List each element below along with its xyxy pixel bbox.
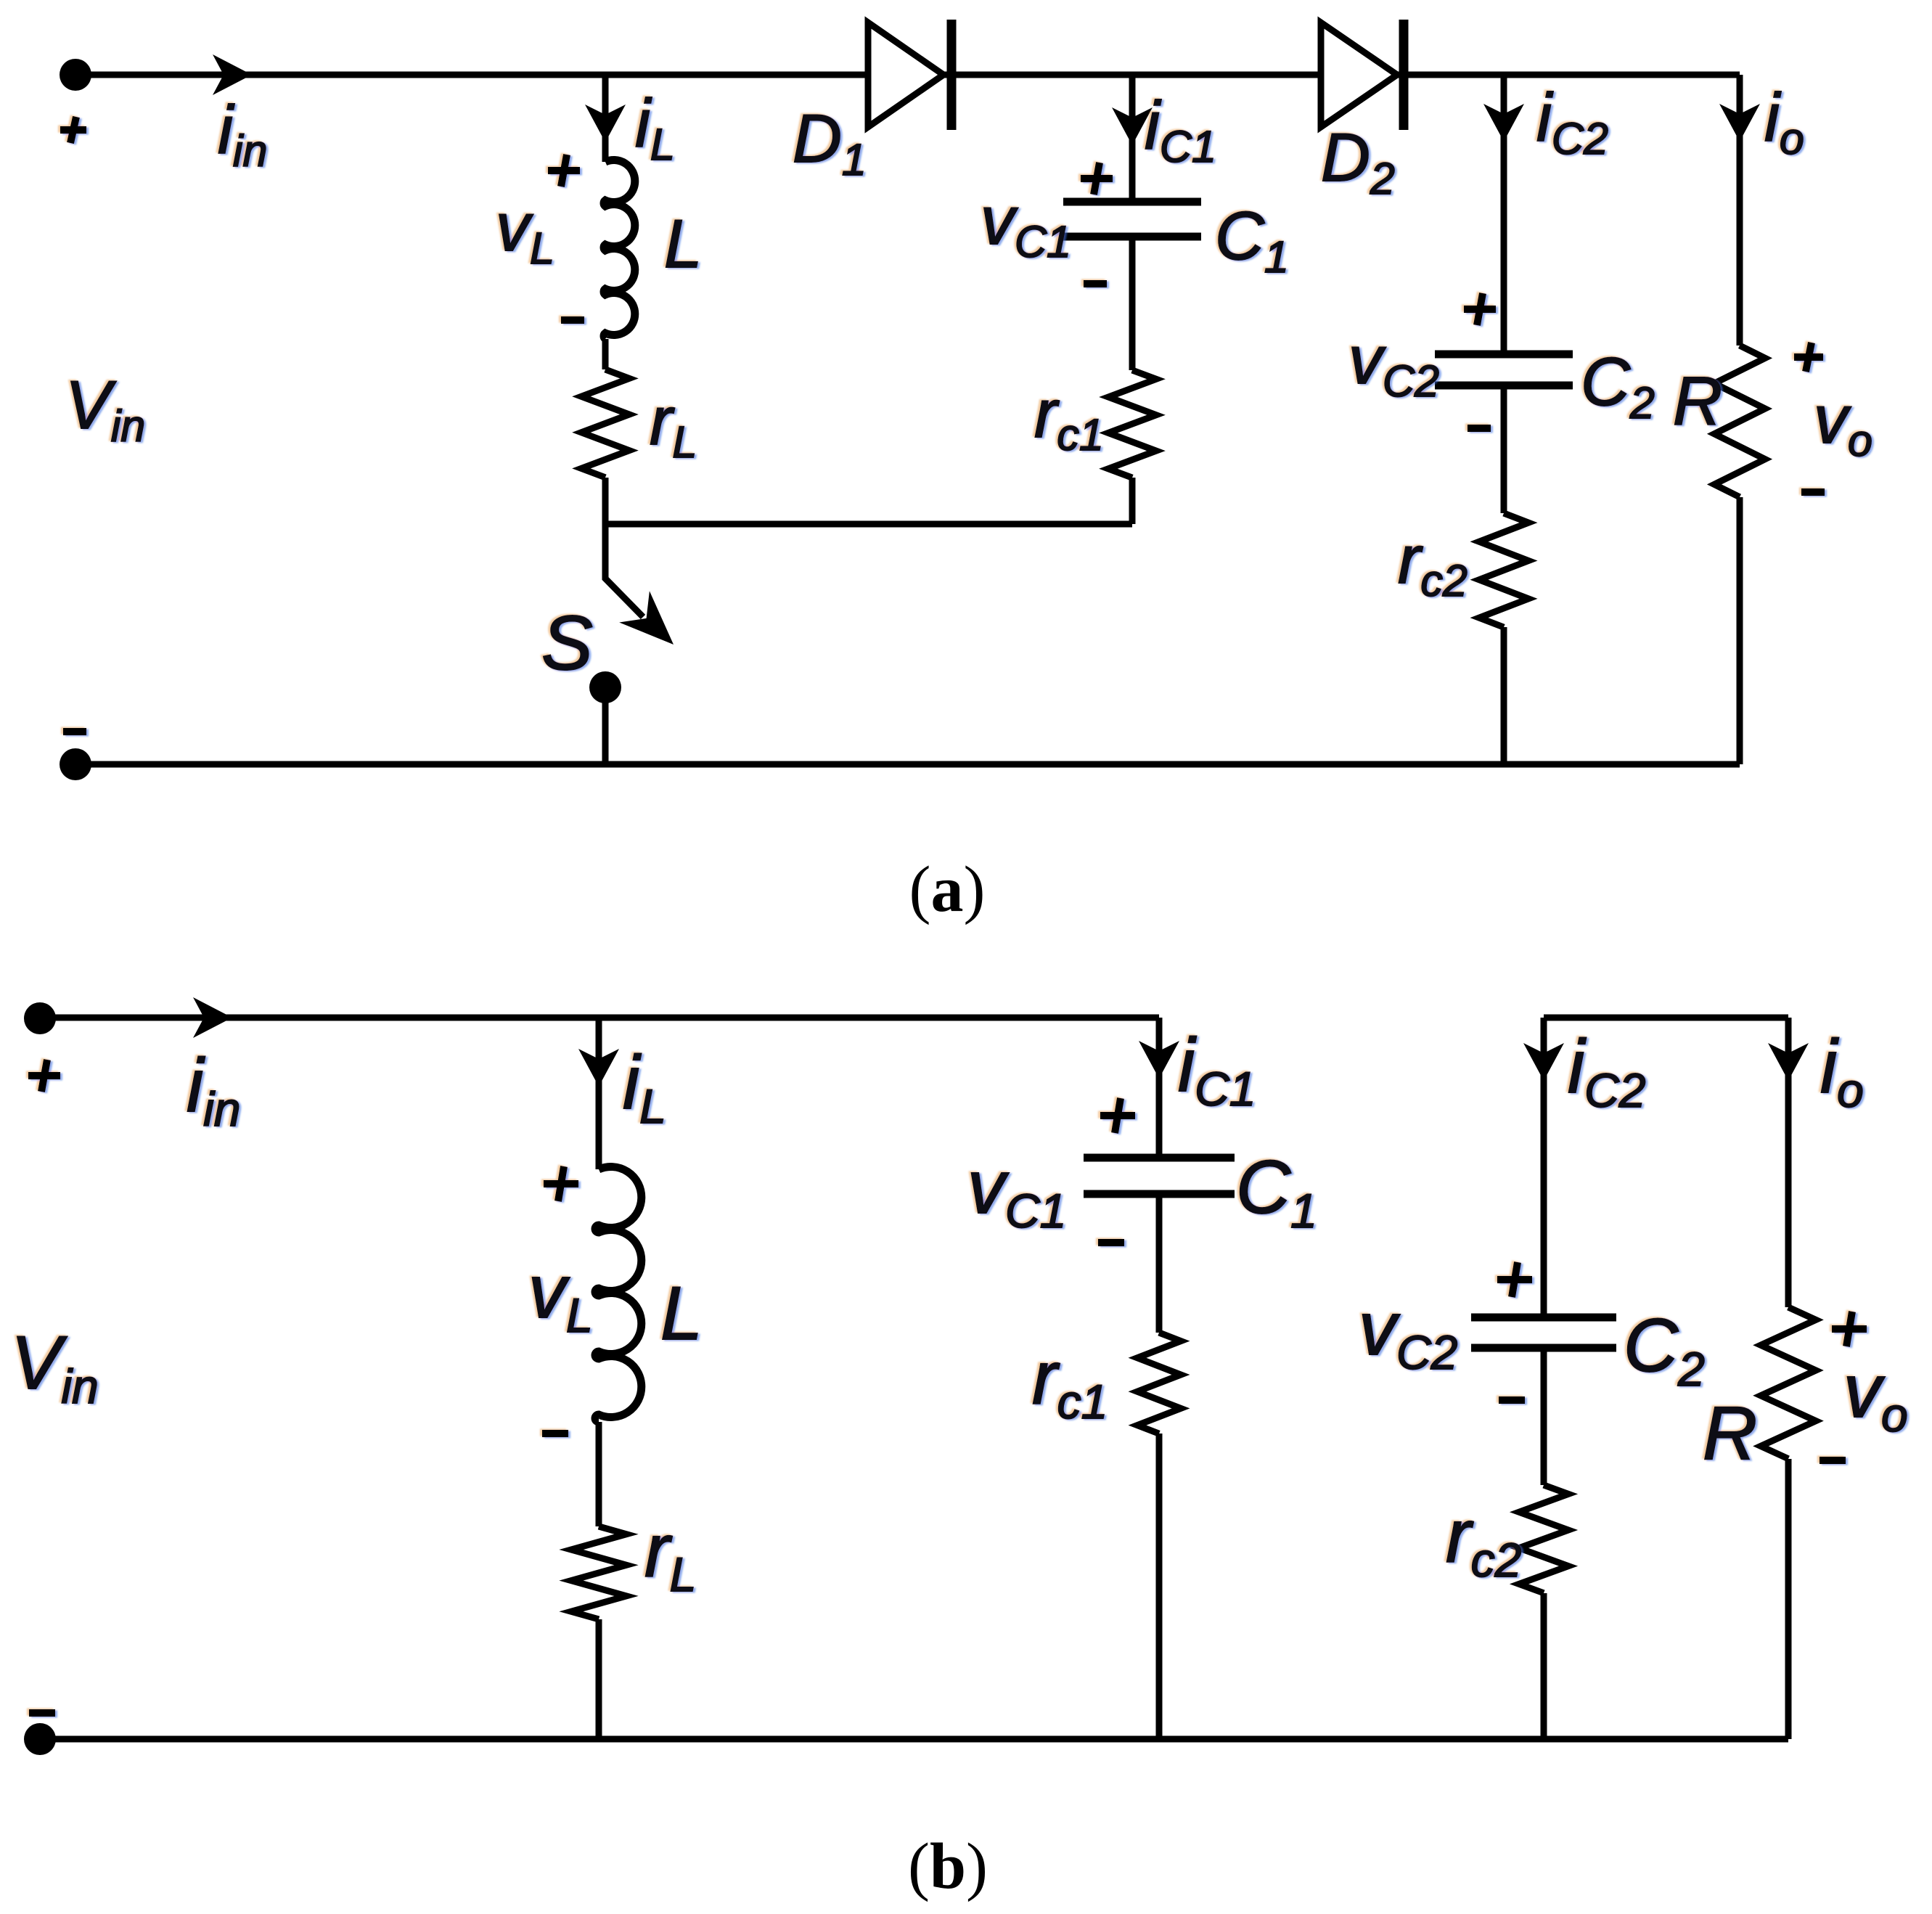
diode D1 (a)	[868, 23, 944, 127]
label - of vo (b)	[1820, 1457, 1846, 1464]
wire: circuit (b) right loop top rail	[1544, 1015, 1788, 1021]
svg-text:R: R	[1673, 363, 1722, 439]
wire coil to rL (b)	[596, 1422, 602, 1526]
wire R to bottom rail (b)	[1785, 1459, 1792, 1739]
wire: circuit (b) bottom rail	[40, 1736, 1788, 1743]
label + of Vin (a)	[60, 117, 86, 143]
label - of vL (b)	[542, 1430, 568, 1437]
switch S blade (a)	[605, 524, 643, 617]
capacitor C1 branch top (a)	[1129, 75, 1136, 198]
node dot: Vin - terminal (a)	[60, 748, 91, 780]
capacitor C1 plates (a)	[1063, 202, 1201, 237]
load R branch top (b)	[1785, 1018, 1792, 1307]
wire coil to rL (a)	[602, 339, 609, 369]
svg-text:S: S	[541, 600, 593, 686]
label - of Vin (b)	[29, 1709, 55, 1717]
label - of vC1 (b)	[1098, 1239, 1124, 1246]
wire: circuit (a) bottom rail	[75, 761, 1740, 768]
capacitor C1 plates (b)	[1084, 1158, 1235, 1194]
node dot: switch S contact (a)	[589, 671, 621, 703]
arrow i_C1 (b)	[1139, 1041, 1179, 1079]
label + of vL (b)	[544, 1166, 578, 1201]
inductor L (a)	[604, 160, 635, 340]
label + of vo (a)	[1794, 343, 1823, 372]
capacitor C1 branch bottom to rc1 (a)	[1129, 240, 1136, 370]
capacitor C2 branch top (a)	[1501, 75, 1507, 351]
label - of vo (a)	[1801, 488, 1825, 496]
resistor R (b)	[1761, 1307, 1816, 1459]
wire rc2 to bottom rail (b)	[1541, 1593, 1547, 1739]
svg-text:R: R	[1703, 1391, 1757, 1476]
wire rL to bottom rail (b)	[596, 1619, 602, 1739]
label - of vC2 (b)	[1499, 1396, 1525, 1404]
wire rc1 to bottom rail (b)	[1156, 1434, 1163, 1739]
node dot: Vin - terminal (b)	[24, 1723, 56, 1755]
label - of Vin (a)	[63, 728, 86, 735]
capacitor C2 branch middle (a)	[1501, 389, 1507, 513]
node dot: Vin + terminal (a)	[60, 59, 91, 91]
wire junction horizontal (a)	[605, 521, 1132, 528]
wire rc1 bottom to junction (a)	[1129, 478, 1136, 524]
inductor L (b)	[595, 1167, 642, 1423]
wire rL to junction (a)	[602, 478, 609, 524]
resistor rc2 (a)	[1479, 513, 1528, 627]
wire switch node to bottom rail (a)	[602, 687, 609, 764]
wire: circuit (b) top rail left	[40, 1015, 1159, 1021]
resistor rL (a)	[581, 369, 629, 478]
arrow i_o (b)	[1768, 1043, 1809, 1081]
inductor L branch vertical (a)	[602, 75, 609, 162]
node dot: Vin + terminal (b)	[24, 1002, 56, 1034]
svg-text:L: L	[664, 205, 702, 282]
arrow i_in (b)	[193, 997, 232, 1038]
capacitor C1 branch top (b)	[1156, 1018, 1163, 1154]
capacitor C2 branch top (b)	[1541, 1018, 1547, 1314]
label - of vL (a)	[561, 316, 584, 324]
label + of vL (a)	[548, 155, 580, 187]
arrow i_in (a)	[213, 54, 252, 95]
label + of Vin (b)	[28, 1060, 60, 1092]
svg-text:(a): (a)	[909, 854, 986, 925]
resistor rL (b)	[571, 1526, 626, 1619]
diode D2 (a)	[1321, 23, 1397, 127]
svg-text:(b): (b)	[908, 1831, 988, 1902]
arrow i_o (a)	[1719, 104, 1760, 142]
arrow i_L (a)	[585, 105, 626, 142]
label + of vC2 (a)	[1464, 293, 1496, 325]
inductor L branch vertical (b)	[596, 1018, 602, 1169]
svg-text:L: L	[660, 1272, 703, 1356]
arrow i_C2 (a)	[1483, 104, 1524, 142]
label + of vC2 (b)	[1497, 1262, 1532, 1297]
capacitor C1 branch bottom (b)	[1156, 1198, 1163, 1333]
resistor rc1 (b)	[1137, 1333, 1181, 1434]
arrow i_C2 (b)	[1523, 1043, 1564, 1081]
capacitor C2 branch middle (b)	[1541, 1351, 1547, 1485]
arrow switch S blade head (a)	[619, 591, 674, 645]
label + of vo (b)	[1832, 1312, 1867, 1346]
capacitor C2 plates (b)	[1471, 1317, 1616, 1348]
resistor R (a)	[1714, 345, 1765, 497]
resistor rc1 (a)	[1108, 370, 1156, 478]
capacitor C2 plates (a)	[1435, 354, 1573, 385]
arrow i_C1 (a)	[1112, 107, 1153, 145]
wire: circuit (a) top rail	[75, 72, 1740, 78]
label + of vC1 (b)	[1100, 1098, 1135, 1133]
label - of vC1 (a)	[1084, 280, 1107, 287]
resistor rc2 (b)	[1519, 1485, 1568, 1593]
label + of vC1 (a)	[1081, 163, 1113, 195]
load R branch top (a)	[1737, 75, 1743, 345]
wire R to bottom rail (a)	[1737, 497, 1743, 764]
wire rc2 to bottom rail (a)	[1501, 627, 1507, 764]
label - of vC2 (a)	[1468, 425, 1491, 432]
arrow i_L (b)	[578, 1049, 619, 1087]
